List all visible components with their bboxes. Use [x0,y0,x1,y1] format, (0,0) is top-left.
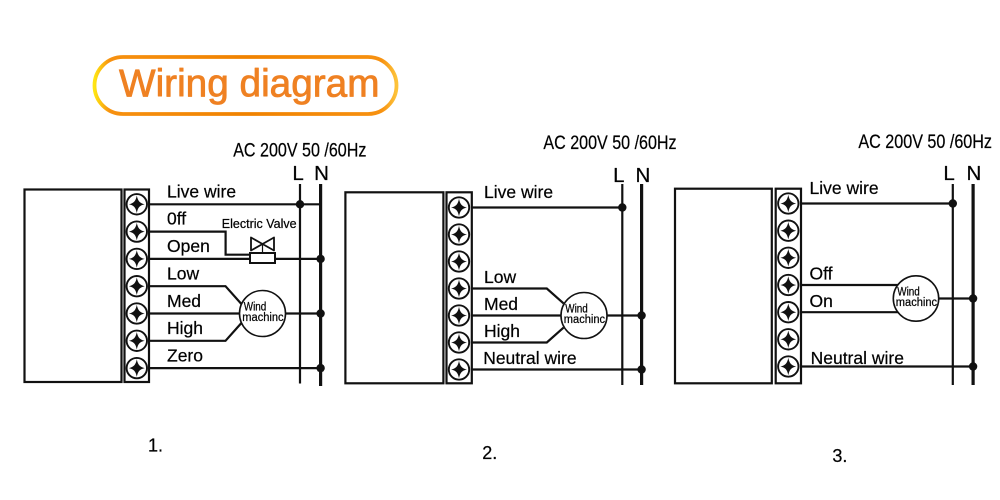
svg-text:L: L [943,162,954,185]
svg-text:Neutral wire: Neutral wire [483,348,576,368]
svg-text:Neutral wire: Neutral wire [811,348,904,368]
svg-text:Med: Med [484,294,518,314]
svg-text:Wiring diagram: Wiring diagram [119,63,380,106]
svg-text:AC 200V 50 /60Hz: AC 200V 50 /60Hz [858,132,992,153]
svg-text:N: N [967,162,982,185]
svg-text:3.: 3. [832,446,847,466]
svg-text:High: High [167,318,203,338]
svg-text:Live wire: Live wire [810,178,879,198]
svg-text:N: N [314,162,329,185]
svg-text:AC 200V 50 /60Hz: AC 200V 50 /60Hz [543,133,676,154]
svg-text:Low: Low [484,267,516,287]
svg-text:2.: 2. [482,443,497,463]
svg-text:machinc: machinc [242,312,284,324]
svg-text:Open: Open [167,236,210,256]
svg-text:machinc: machinc [896,297,938,309]
svg-text:Zero: Zero [167,346,203,366]
svg-text:Low: Low [167,264,199,284]
svg-text:0ff: 0ff [167,209,186,229]
svg-text:On: On [810,291,833,311]
svg-text:Live wire: Live wire [167,181,236,201]
svg-text:L: L [613,164,624,187]
svg-text:High: High [484,321,520,341]
svg-text:AC 200V 50 /60Hz: AC 200V 50 /60Hz [233,141,366,162]
svg-text:L: L [292,162,303,185]
svg-text:Electric Valve: Electric Valve [222,216,297,231]
svg-text:Live wire: Live wire [484,182,553,202]
svg-text:1.: 1. [148,436,163,456]
svg-text:Med: Med [167,291,201,311]
svg-text:machinc: machinc [564,314,606,326]
svg-text:N: N [636,164,651,187]
svg-text:Off: Off [810,264,833,284]
